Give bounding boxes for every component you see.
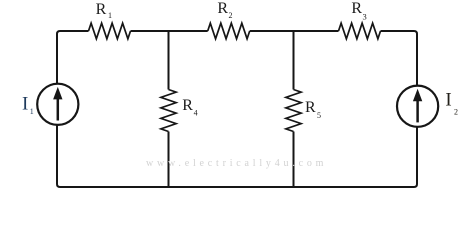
wire: left rail top segment — [57, 31, 89, 84]
wire: right rail top segment — [381, 31, 418, 86]
svg-text:1: 1 — [30, 107, 34, 116]
wire: branch 1 upper — [168, 31, 170, 90]
resistor R2 — [208, 23, 250, 39]
svg-text:3: 3 — [363, 12, 367, 22]
svg-text:5: 5 — [317, 111, 321, 120]
svg-text:R: R — [351, 0, 362, 17]
svg-text:R: R — [182, 97, 193, 114]
label R3 — [351, 0, 366, 21]
wire: top rail, node A segment (R1 to R2) — [131, 30, 208, 32]
current source I1 — [37, 84, 78, 125]
resistor R4 — [161, 90, 176, 132]
wire: top rail, node B segment (R2 to R3) — [250, 30, 339, 32]
wire: right rail bottom segment — [57, 125, 417, 187]
svg-text:2: 2 — [229, 11, 233, 20]
svg-text:R: R — [217, 0, 228, 17]
wire: branch 1 lower — [168, 132, 170, 188]
svg-text:4: 4 — [194, 109, 198, 118]
svg-text:I: I — [22, 93, 28, 114]
svg-text:www.electrically4u.com: www.electrically4u.com — [146, 158, 327, 169]
label R2 — [217, 0, 232, 20]
label R5 — [305, 99, 321, 120]
current source I2 — [397, 86, 438, 127]
svg-text:2: 2 — [454, 108, 458, 117]
label I1 — [22, 93, 34, 115]
label R4 — [182, 97, 197, 118]
wire: branch 2 upper — [293, 31, 295, 90]
svg-text:1: 1 — [108, 11, 112, 20]
resistor R1 — [89, 23, 131, 39]
wire: branch 2 lower — [293, 132, 295, 188]
label R1 — [96, 1, 112, 20]
resistor R5 — [286, 90, 301, 132]
svg-text:I: I — [445, 89, 451, 110]
label I2 — [445, 89, 458, 116]
svg-text:R: R — [305, 99, 316, 116]
svg-text:R: R — [96, 1, 107, 18]
resistor R3 — [339, 23, 381, 39]
